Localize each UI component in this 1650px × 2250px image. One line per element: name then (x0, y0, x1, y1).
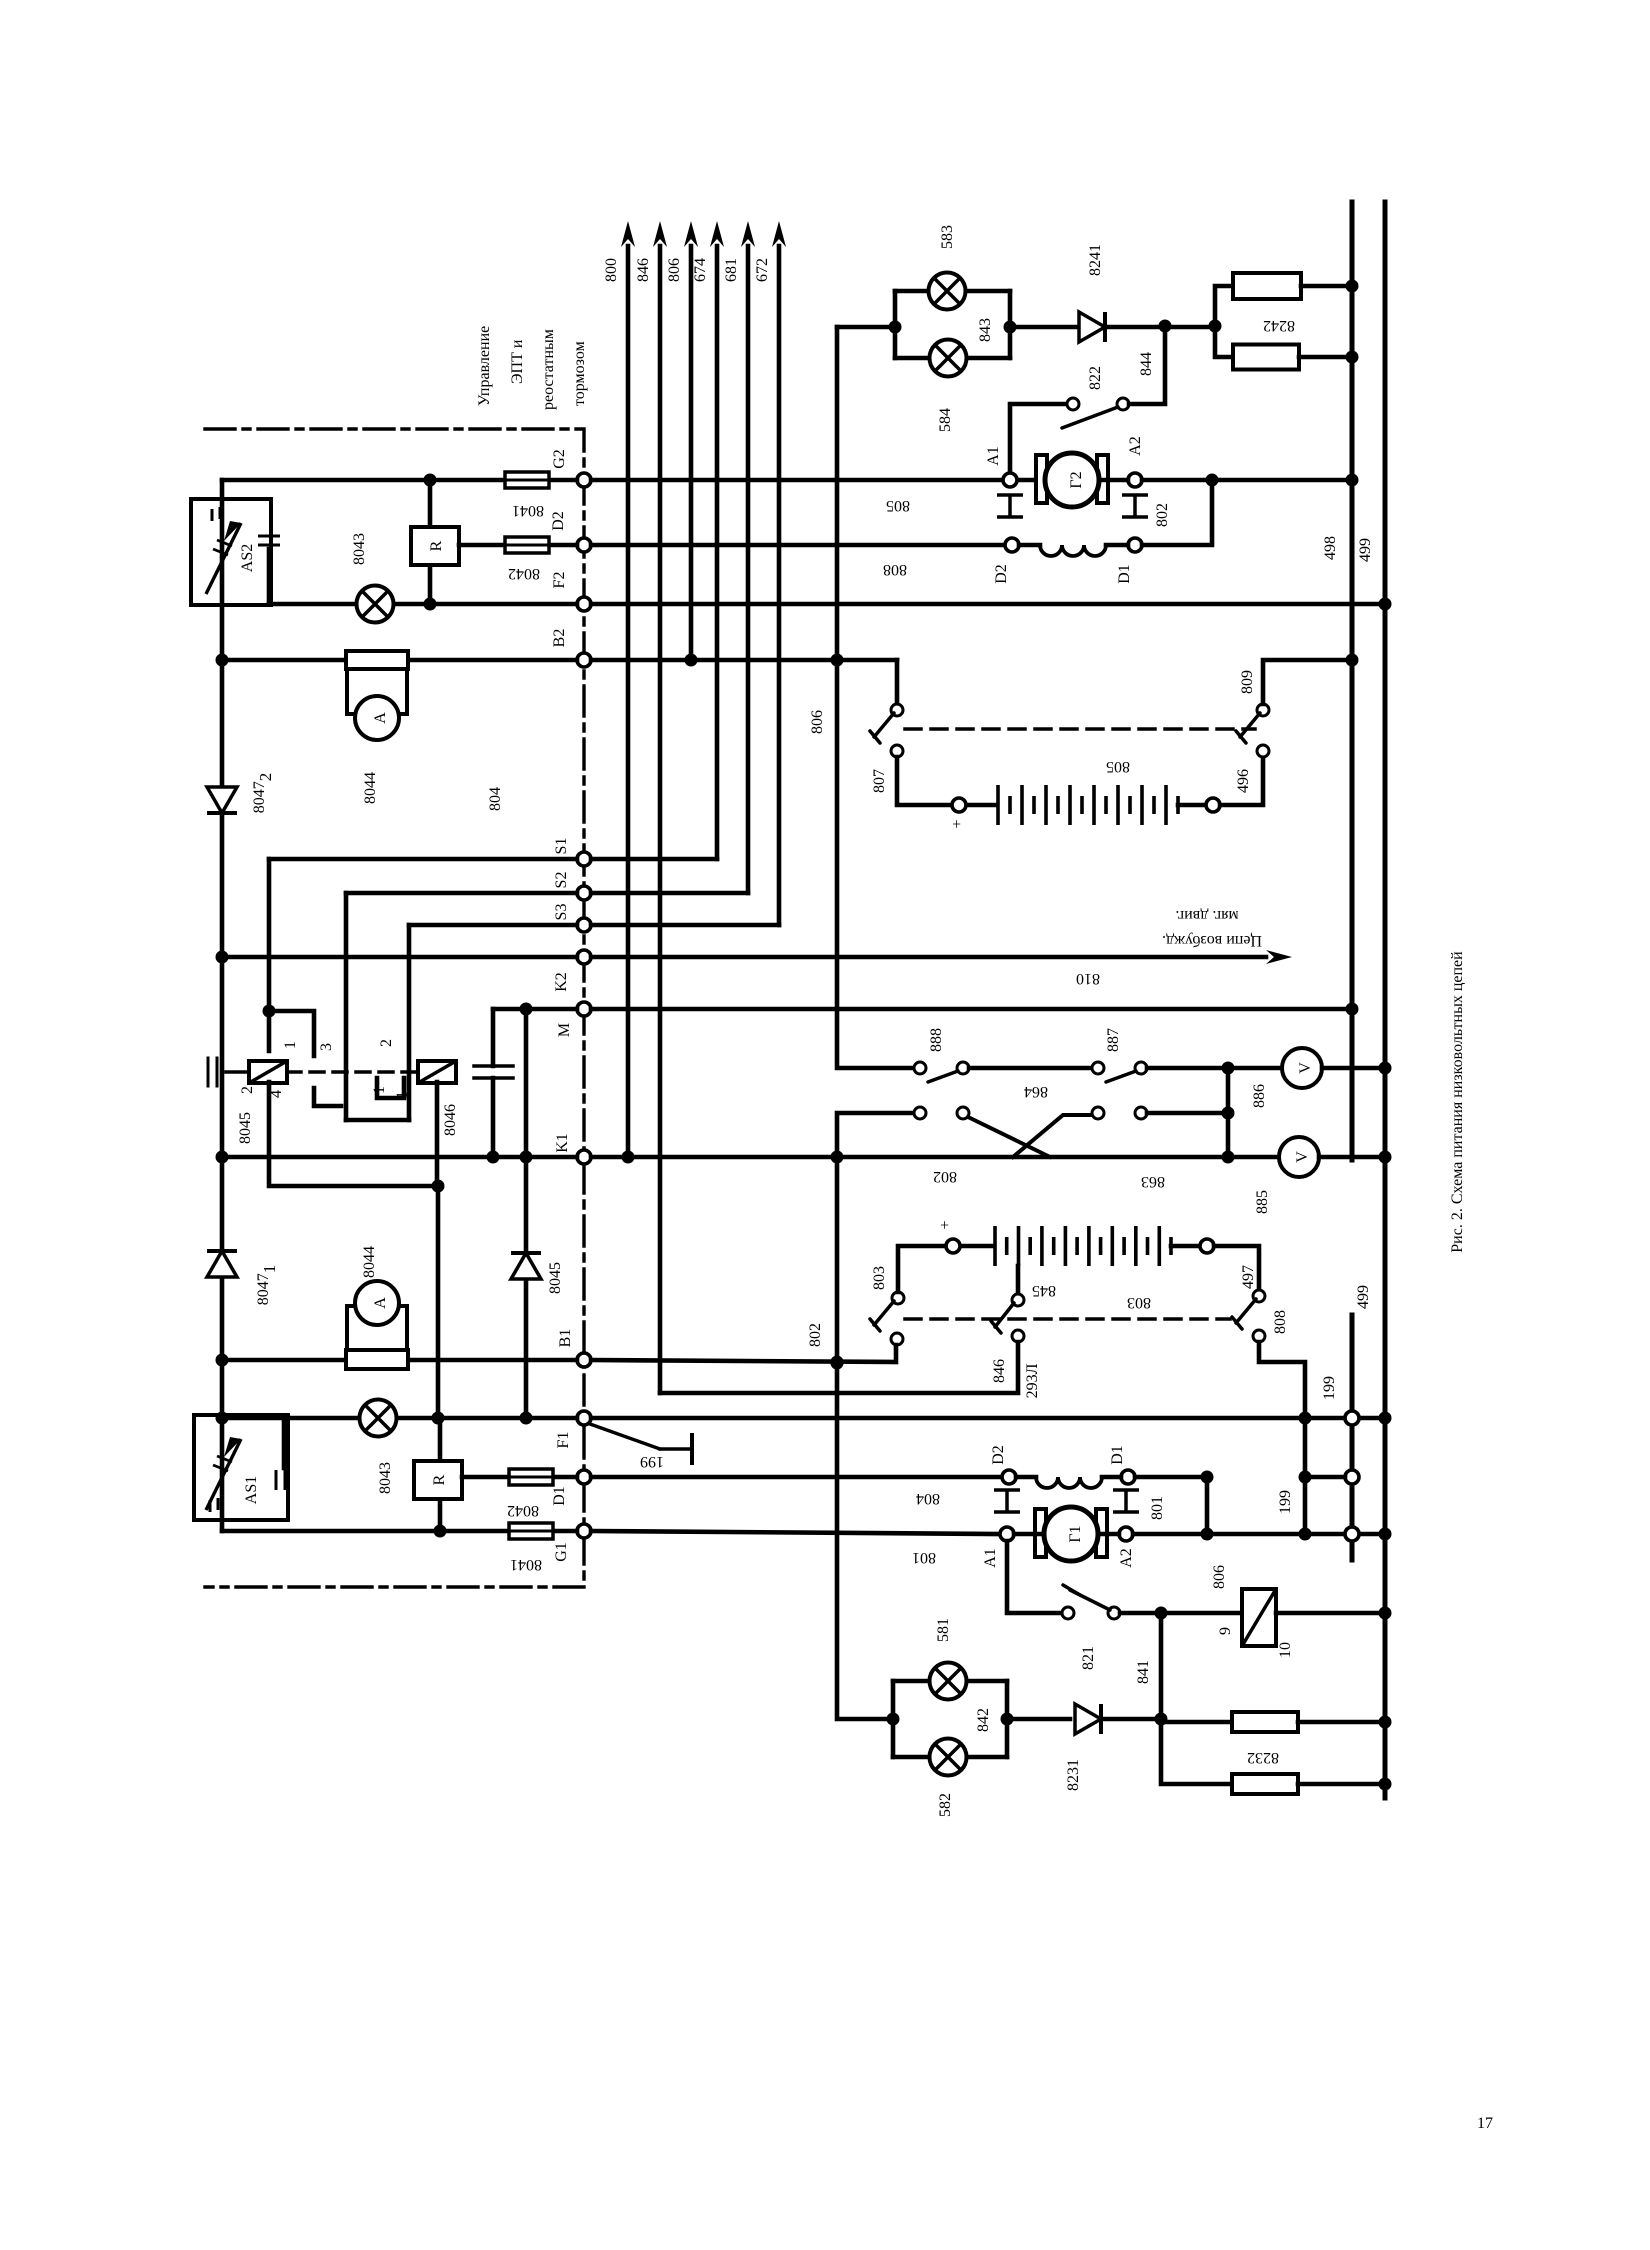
svg-text:8045: 8045 (547, 1262, 564, 1294)
svg-text:реостатным: реостатным (540, 329, 557, 410)
svg-text:8042: 8042 (507, 1502, 539, 1519)
switch 803 (892, 1292, 904, 1304)
svg-text:806: 806 (1211, 1565, 1228, 1589)
breaker AS2 box (191, 499, 271, 605)
svg-text:584: 584 (937, 408, 954, 432)
svg-text:808: 808 (1272, 1310, 1289, 1334)
svg-text:+: + (937, 1220, 954, 1229)
wire: S1 corner down to relay 8045 (267, 859, 272, 1051)
svg-text:805: 805 (886, 497, 910, 514)
svg-text:806: 806 (666, 258, 683, 282)
svg-text:B1: B1 (557, 1329, 574, 1348)
svg-text:G2: G2 (551, 449, 568, 469)
svg-text:802: 802 (1154, 503, 1171, 527)
svg-text:496: 496 (1235, 769, 1252, 793)
switch 807 (895, 660, 900, 704)
svg-text:886: 886 (1251, 1084, 1268, 1108)
svg-text:802: 802 (807, 1323, 824, 1347)
svg-text:8043: 8043 (377, 1462, 394, 1494)
resistors 8232 (1161, 1720, 1232, 1725)
svg-text:499: 499 (1357, 538, 1374, 562)
node: junction on G2 row (424, 474, 437, 487)
svg-text:V: V (1294, 1151, 1311, 1163)
wire M to K1 to F1 with diode 8045 (524, 1009, 529, 1252)
svg-text:672: 672 (754, 258, 771, 282)
svg-text:AS2: AS2 (239, 544, 256, 572)
wire riser x837 lower (837, 1113, 914, 1719)
breaker AS1 box (194, 1415, 288, 1520)
wire row F1 right (199) (591, 1416, 1385, 1421)
svg-text:888: 888 (928, 1028, 945, 1052)
wire D1(Г1) link down to armature row (1135, 1477, 1207, 1527)
wire: R box to fuse 8042 row D2 (459, 543, 577, 548)
wire bracket to diode 8231 (1007, 1717, 1070, 1722)
fuse 8041 (top) (505, 472, 549, 488)
wire: S2 corner down (344, 893, 349, 1120)
svg-text:199: 199 (1321, 1376, 1338, 1400)
voltmeter 886 (1282, 1048, 1322, 1088)
battery tap 845 (1016, 1266, 1021, 1294)
svg-text:Цепи возбужд.: Цепи возбужд. (1162, 932, 1262, 949)
lamp 581 (930, 1663, 967, 1700)
wire row B1 (222, 1358, 577, 1363)
svg-text:8231: 8231 (1065, 1759, 1082, 1791)
svg-text:A2: A2 (1118, 1548, 1135, 1568)
svg-text:846: 846 (635, 258, 652, 282)
svg-text:681: 681 (723, 258, 740, 282)
bus wire 498 (1350, 202, 1355, 1160)
wire row B2 right (591, 658, 897, 663)
svg-text:8043: 8043 (351, 533, 368, 565)
vertical 199 link dots (1299, 1412, 1312, 1425)
svg-text:Рис. 2. Схема питания низковол: Рис. 2. Схема питания низковольтных цепе… (1449, 951, 1466, 1253)
wire row S3 (409, 923, 577, 928)
lamp bracket 583/584 (895, 291, 1010, 358)
dashed link 803-845-808 (905, 1317, 1230, 1321)
svg-text:3: 3 (318, 1043, 335, 1051)
wire 803 top to battery+ (898, 1246, 946, 1292)
svg-text:199: 199 (1277, 1490, 1294, 1514)
svg-text:D2: D2 (990, 1445, 1007, 1465)
wire A2 right to buses (1133, 1532, 1385, 1537)
svg-text:Управление: Управление (476, 326, 493, 406)
wire row 808: D2 terminal to field (591, 543, 1005, 548)
wire row G1 (222, 1529, 577, 1534)
svg-text:ЭПТ и: ЭПТ и (509, 339, 526, 384)
svg-text:D1: D1 (1116, 564, 1133, 584)
dashed link 807-809 (905, 727, 1255, 731)
wire row M (493, 1007, 577, 1012)
terminals on strip (577, 473, 591, 487)
wire D1 up to armature row (1142, 483, 1212, 545)
svg-text:8241: 8241 (1087, 244, 1104, 276)
wire S1 right to 674 (591, 857, 717, 862)
terminals A1 A2 of Г2 (1003, 473, 1017, 487)
generator G2 armature row (1017, 478, 1041, 483)
wire row 805: G2 terminal to A1 (591, 478, 1003, 483)
switch 497/808 (1214, 1246, 1259, 1290)
resistor box R (upper) (411, 527, 459, 565)
svg-text:K2: K2 (553, 972, 570, 992)
wire 808 down to 199 row and further (1259, 1342, 1305, 1534)
svg-text:802: 802 (933, 1168, 957, 1185)
svg-text:A1: A1 (982, 1548, 999, 1568)
wire A2 to bus1 (1142, 478, 1352, 483)
svg-text:S1: S1 (553, 838, 570, 855)
svg-text:809: 809 (1239, 670, 1256, 694)
relay 806 box (1242, 1589, 1276, 1646)
svg-text:S2: S2 (553, 872, 570, 889)
svg-text:1: 1 (371, 1086, 388, 1094)
svg-text:R: R (431, 1474, 448, 1485)
svg-text:803: 803 (1127, 1294, 1151, 1311)
voltmeter 885 (1279, 1137, 1319, 1177)
small finger u under 8046 (377, 1078, 404, 1098)
svg-text:D2: D2 (993, 564, 1010, 584)
svg-text:807: 807 (871, 769, 888, 793)
wire diode to junction 841 (1104, 1717, 1161, 1722)
breaker AS2 symbol (206, 523, 241, 594)
switch at F1 with connector bar (590, 1424, 660, 1449)
battery 805 (952, 798, 966, 812)
fuse 8041 (lower) (509, 1523, 553, 1539)
svg-text:K1: K1 (554, 1133, 571, 1153)
svg-text:D1: D1 (1109, 1445, 1126, 1465)
contact finger 1 (269, 1011, 314, 1056)
svg-text:885: 885 (1254, 1190, 1271, 1214)
svg-text:846: 846 (991, 1359, 1008, 1383)
wire: R to fuse 8042 (lower) on D1 row (462, 1475, 577, 1480)
resistors 8242 (1215, 286, 1233, 320)
svg-text:8044: 8044 (361, 1246, 378, 1278)
svg-text:581: 581 (935, 1618, 952, 1642)
svg-text:810: 810 (1076, 970, 1100, 987)
svg-text:1: 1 (282, 1041, 299, 1049)
svg-text:8041: 8041 (512, 502, 544, 519)
svg-text:803: 803 (871, 1266, 888, 1290)
svg-text:A1: A1 (985, 446, 1002, 466)
relay coil 8046 (418, 1061, 456, 1083)
svg-text:A2: A2 (1127, 436, 1144, 456)
wire row B2 (222, 658, 577, 663)
wire lamp bracket to diode 8241 (1010, 325, 1076, 330)
exit wires 800 846 806 674 681 672 with arrows (626, 246, 631, 1157)
svg-text:8041: 8041 (510, 1556, 542, 1573)
row X crossing (914, 1107, 926, 1119)
svg-text:10: 10 (1277, 1642, 1294, 1658)
svg-text:822: 822 (1087, 366, 1104, 390)
wire from 837 corner to lamp bracket 583/584 (837, 325, 895, 330)
svg-text:17: 17 (1477, 2115, 1493, 2132)
svg-text:293Л: 293Л (1024, 1363, 1041, 1398)
lamp 8043 (upper) (357, 586, 394, 623)
wire S2 right to 681 (591, 891, 748, 896)
svg-text:80471: 80471 (255, 1265, 279, 1306)
wire row F2 right to bus2 (591, 602, 1385, 607)
wire row K2 and 810 arrow (222, 955, 577, 960)
capacitor at M/K1 (491, 1009, 496, 1066)
svg-text:M: M (556, 1023, 573, 1037)
svg-text:8044: 8044 (362, 772, 379, 804)
svg-text:583: 583 (939, 225, 956, 249)
svg-text:А: А (372, 712, 389, 724)
svg-text:8042: 8042 (508, 565, 540, 582)
svg-text:801: 801 (912, 1549, 936, 1566)
svg-text:9: 9 (1217, 1627, 1234, 1635)
svg-text:мяг. двиг.: мяг. двиг. (1175, 907, 1238, 924)
svg-text:498: 498 (1322, 536, 1339, 560)
svg-text:F2: F2 (551, 572, 568, 589)
wire row G2 (222, 478, 577, 483)
svg-text:AS1: AS1 (243, 1476, 260, 1504)
wire 821 to relay 806 (1120, 1611, 1242, 1616)
svg-text:499: 499 (1355, 1285, 1372, 1309)
svg-text:80472: 80472 (251, 773, 275, 814)
wire 809 top to bus1 (1263, 660, 1352, 704)
wire row S2 (346, 891, 577, 896)
diode 8231 (1075, 1704, 1101, 1734)
junction dots on left rail (216, 654, 229, 667)
svg-text:199: 199 (640, 1453, 664, 1470)
wire: vertical from G2 row to R box to F2 row (428, 480, 433, 527)
svg-text:864: 864 (1024, 1083, 1048, 1100)
svg-text:8232: 8232 (1247, 1749, 1279, 1766)
wire row B1 right: strip to switch 803 (591, 1345, 896, 1362)
bus wire 499 (1383, 202, 1388, 1798)
svg-text:845: 845 (1032, 1282, 1056, 1299)
svg-text:тормозом: тормозом (571, 341, 588, 406)
svg-text:497: 497 (1240, 1265, 1257, 1289)
lamp 583 (929, 273, 966, 310)
wire row 804: D1 terminal to field of Г1 (591, 1475, 1002, 1480)
fuse 8042 (lower) (509, 1469, 553, 1485)
svg-text:2: 2 (239, 1086, 256, 1094)
switch 822 (1010, 404, 1067, 477)
lamp 582 (930, 1739, 967, 1776)
svg-text:D2: D2 (550, 511, 567, 531)
svg-text:821: 821 (1080, 1646, 1097, 1670)
svg-text:800: 800 (603, 258, 620, 282)
breaker AS1 symbol (206, 1439, 241, 1510)
contact fingers 2/4 (314, 1088, 341, 1106)
wire row F1 with lamp 8043 (222, 1416, 360, 1421)
svg-text:805: 805 (1106, 758, 1130, 775)
svg-text:Г1: Г1 (1067, 1525, 1084, 1542)
svg-text:1: 1 (394, 1091, 411, 1099)
wire relay to bus2 (1276, 1611, 1385, 1616)
lamp bracket 581/582 (893, 1681, 1007, 1757)
wire 807 to battery plus (897, 757, 950, 805)
wire S3 right to 672 (591, 923, 779, 928)
wire riser x837 (837, 327, 914, 1068)
svg-text:674: 674 (692, 258, 709, 282)
wire 293L switch down to 846 (660, 1342, 1018, 1393)
svg-text:8045: 8045 (237, 1112, 254, 1144)
svg-text:804: 804 (487, 787, 504, 811)
wire row S1 (269, 857, 577, 862)
svg-text:А: А (372, 1297, 389, 1309)
lamp 8043 (lower) (360, 1400, 397, 1437)
8045 left lead and cap mark (207, 1058, 210, 1086)
left rail wire x=222 (220, 480, 225, 1531)
ammeter 8044 (lower) (346, 1350, 408, 1369)
wire row K1 (222, 1155, 577, 1160)
vertical 841 (1159, 1613, 1164, 1719)
X cross wires (968, 1117, 1050, 1157)
battery 803 (995, 1226, 1171, 1266)
wire row F2 with lamp (267, 549, 272, 604)
lamp 584 (930, 340, 967, 377)
machine Г2 (1036, 455, 1047, 503)
svg-text:R: R (428, 540, 445, 551)
wire diode to junction (1108, 325, 1215, 330)
svg-text:F1: F1 (555, 1432, 572, 1449)
diode 8047_2 (207, 787, 237, 813)
wire battery to switch 809 (1220, 757, 1263, 805)
wire row 801: G1 to A1 of Г1 (591, 1531, 1000, 1534)
svg-text:863: 863 (1141, 1173, 1165, 1190)
svg-text:B2: B2 (551, 629, 568, 648)
svg-text:582: 582 (937, 1793, 954, 1817)
svg-text:Г2: Г2 (1068, 471, 1085, 488)
relay coil 8045 (249, 1061, 287, 1083)
row 802/863 to voltmeter 885 (591, 1155, 1279, 1160)
svg-text:841: 841 (1135, 1660, 1152, 1684)
svg-text:V: V (1297, 1062, 1314, 1074)
ammeter 8044 (upper): shunt box and meter (346, 651, 408, 669)
svg-text:887: 887 (1105, 1028, 1122, 1052)
diode 8047_1 (207, 1251, 237, 1277)
link 886 (1226, 1068, 1231, 1157)
svg-text:D1: D1 (551, 1486, 568, 1506)
machine Г1 (1035, 1509, 1046, 1557)
fuse 8042 (top) (505, 537, 549, 553)
wire: coils common down to F1 row (269, 1082, 438, 1418)
svg-text:806: 806 (809, 710, 826, 734)
armature dashed link (287, 1070, 419, 1074)
svg-text:843: 843 (977, 318, 994, 342)
link bottom of fingers (346, 1118, 409, 1123)
svg-text:842: 842 (975, 1708, 992, 1732)
svg-text:801: 801 (1149, 1496, 1166, 1520)
terminal strip dash-dot line (205, 429, 584, 1587)
svg-text:844: 844 (1138, 352, 1155, 376)
svg-text:G1: G1 (553, 1542, 570, 1562)
svg-text:+: + (949, 819, 966, 828)
brushes of Г2 (997, 495, 1023, 517)
wire: F1 row to R to G1 row (438, 1418, 443, 1461)
resistor box R (lower) (414, 1461, 462, 1499)
wire lamp to AS1 contact (282, 1418, 287, 1468)
svg-text:8242: 8242 (1263, 317, 1295, 334)
svg-text:808: 808 (883, 561, 907, 578)
switch 821 from A1 (1007, 1541, 1062, 1613)
svg-text:S3: S3 (553, 904, 570, 921)
row 888/887 (914, 1062, 926, 1074)
wire: S3 corner down (407, 925, 412, 1120)
field winding of Г2 (1005, 538, 1019, 552)
wire to lamp bracket 581/582 (891, 1717, 896, 1722)
svg-text:804: 804 (916, 1490, 940, 1507)
diode 8241 (1079, 312, 1105, 342)
bus wire 498 lower segment (1350, 1315, 1355, 1560)
svg-text:8046: 8046 (442, 1104, 459, 1136)
svg-text:2: 2 (378, 1039, 395, 1047)
